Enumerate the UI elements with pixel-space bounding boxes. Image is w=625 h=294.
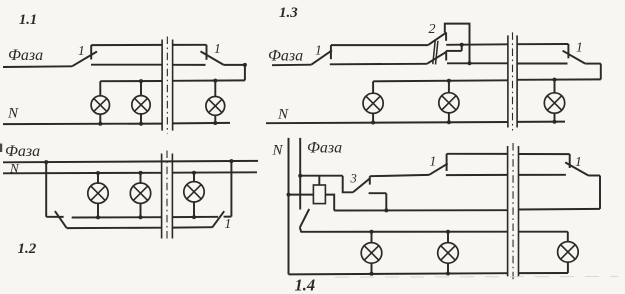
svg-text:Фаза: Фаза	[5, 143, 40, 160]
svg-text:1: 1	[225, 216, 232, 231]
svg-text:Фаза: Фаза	[307, 140, 342, 157]
svg-text:1.1: 1.1	[19, 12, 37, 28]
svg-text:1: 1	[214, 41, 221, 56]
svg-text:Фаза: Фаза	[268, 48, 303, 65]
svg-text:3: 3	[350, 172, 357, 186]
svg-text:2: 2	[429, 22, 436, 37]
svg-text:1: 1	[430, 154, 437, 169]
svg-text:N: N	[272, 143, 284, 159]
svg-text:1: 1	[575, 154, 582, 169]
svg-text:N: N	[7, 106, 19, 122]
svg-text:1: 1	[315, 43, 322, 58]
svg-text:1.2: 1.2	[18, 241, 37, 257]
svg-text:1: 1	[576, 40, 583, 55]
svg-text:Фаза: Фаза	[8, 47, 43, 64]
svg-text:N: N	[277, 107, 289, 123]
svg-text:1.3: 1.3	[279, 5, 298, 21]
svg-text:1.4: 1.4	[295, 276, 316, 294]
svg-text:1: 1	[78, 43, 85, 58]
